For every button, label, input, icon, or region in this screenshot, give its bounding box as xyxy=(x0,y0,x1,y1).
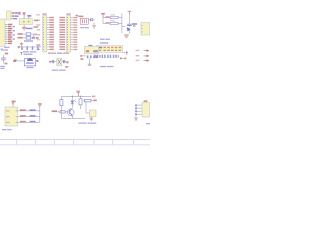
caption under pull-up rail xyxy=(23,51,29,52)
resistor R1 row xyxy=(18,33,37,36)
IC U1 xyxy=(0,19,15,46)
ground right of crystal xyxy=(65,67,69,68)
key wires xyxy=(80,55,97,66)
right-edge module box xyxy=(141,23,150,36)
regulator U2 xyxy=(19,17,32,28)
power VCC above buzzer xyxy=(20,52,32,55)
wire to port right of SW1 xyxy=(120,57,126,59)
caption under reset circuit xyxy=(80,27,84,28)
cap C1 at left xyxy=(1,53,16,65)
header P2 xyxy=(59,13,77,52)
caption under buzzer xyxy=(27,67,34,68)
ground below Q1 xyxy=(124,35,129,37)
label right of U2 xyxy=(34,20,39,22)
ground below R2 xyxy=(20,42,23,45)
wires from P3 xyxy=(18,103,42,122)
power VCC above Q1 xyxy=(128,11,132,14)
buzzer LS1 xyxy=(14,58,38,66)
port arrow 2 xyxy=(136,55,150,58)
port arrow 1 xyxy=(136,49,150,52)
bottom-left connector P3 xyxy=(5,101,18,126)
DIP switch SW1 xyxy=(92,46,123,53)
resistor R2 row with diode xyxy=(18,37,39,40)
label right of Q1 xyxy=(132,23,137,25)
power VCC above U2 xyxy=(23,14,25,16)
pin right of SW1 xyxy=(123,51,129,55)
caption of Q1 circuit xyxy=(100,39,105,40)
power VCC Q1 branch xyxy=(101,13,110,18)
caption under C1 xyxy=(0,66,5,67)
transistor Q1 xyxy=(127,14,132,34)
bottom-center driver circuit xyxy=(60,91,95,111)
caption of R network xyxy=(24,40,33,41)
wire joining R1/R2 xyxy=(33,34,35,38)
pull-up rail wire xyxy=(18,45,41,50)
bottom-right connector P4 xyxy=(134,100,149,120)
caption under P3 xyxy=(2,129,6,130)
wire node bus xyxy=(122,13,125,33)
caption under P4 xyxy=(146,123,150,124)
transistor Q2 xyxy=(52,109,74,119)
port arrow 3 xyxy=(136,59,150,62)
caption under U1 xyxy=(4,47,10,48)
wire along bottom circuit xyxy=(62,111,86,119)
caption bottom-center xyxy=(78,123,86,124)
sheet border bottom xyxy=(0,140,150,145)
caption right of U2 ground xyxy=(26,28,33,30)
resistor R3 xyxy=(106,14,122,18)
net label VCC (left) xyxy=(19,12,21,15)
crystal Y1 xyxy=(49,58,68,66)
resistor R4 xyxy=(103,18,122,25)
caption under headers xyxy=(48,53,56,54)
LED module box xyxy=(86,101,96,121)
net stub left margin xyxy=(1,48,3,49)
reset circuit U3 xyxy=(76,15,95,25)
key button S1 xyxy=(84,45,102,54)
ground below U2 xyxy=(22,28,27,30)
contacts below SW1 xyxy=(94,55,119,58)
caption under SW1 xyxy=(100,66,106,67)
connector J1 xyxy=(7,11,19,20)
header P1 xyxy=(36,13,54,52)
ground of reset circuit xyxy=(92,26,96,28)
caption under crystal xyxy=(52,70,58,71)
net label above U2 xyxy=(27,15,31,17)
net label above SW1 xyxy=(100,42,109,43)
label left of right-edge box xyxy=(133,25,136,27)
resistor R8 top right xyxy=(83,100,97,102)
